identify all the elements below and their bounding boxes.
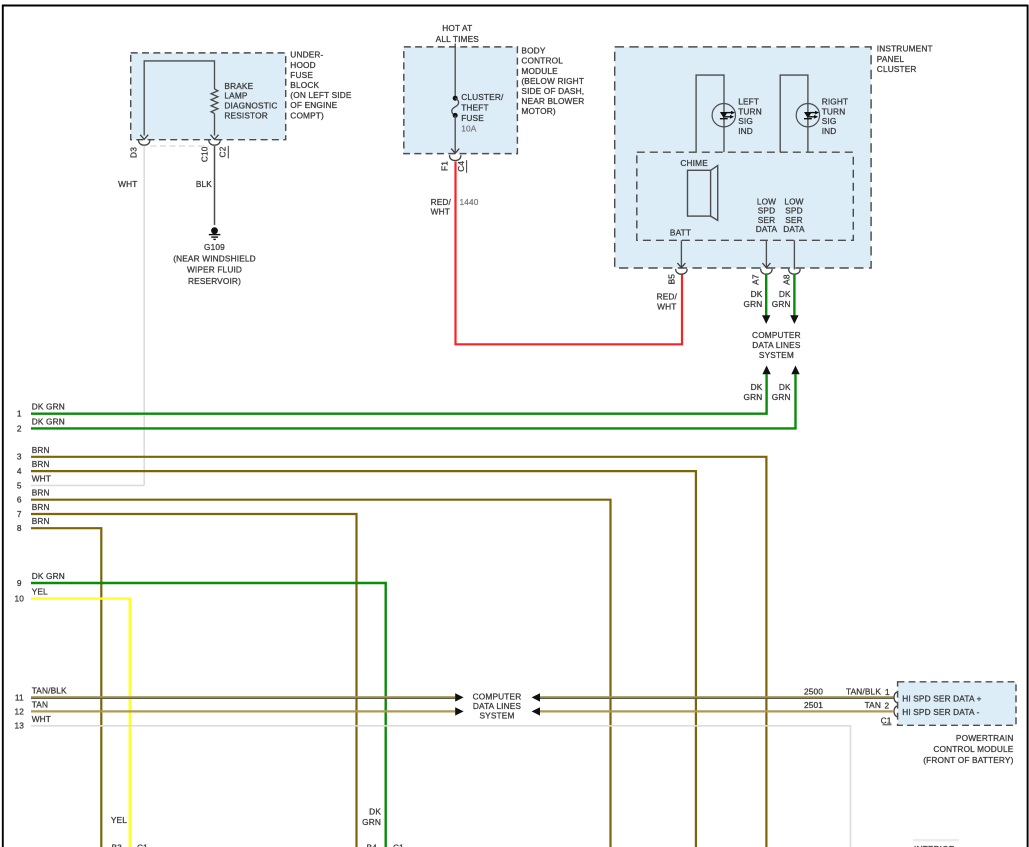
LED lamp right turn sig ind xyxy=(796,104,819,127)
speaker symbol xyxy=(688,166,718,221)
svg-text:GRN: GRN xyxy=(744,392,763,402)
powertrain control module label xyxy=(923,733,1014,765)
wire 13 WHT xyxy=(15,714,851,847)
connector bump D3 xyxy=(138,140,149,145)
connector C2 link line xyxy=(151,145,209,147)
resistor R1 brake lamp diagnostic resistor xyxy=(211,89,218,114)
svg-text:LEFT: LEFT xyxy=(738,96,759,106)
svg-text:CONTROL MODULE: CONTROL MODULE xyxy=(933,744,1013,754)
svg-text:RESISTOR: RESISTOR xyxy=(224,111,267,121)
svg-text:MODULE: MODULE xyxy=(521,66,558,76)
svg-text:B3: B3 xyxy=(112,843,123,847)
svg-text:C1: C1 xyxy=(881,715,892,725)
connector bump F1/C4 xyxy=(449,155,460,160)
svg-text:GRN: GRN xyxy=(362,817,381,827)
svg-text:2501: 2501 xyxy=(804,700,823,710)
svg-text:C1: C1 xyxy=(393,843,404,847)
wire to pin A7 xyxy=(765,240,767,267)
svg-text:WIPER FLUID: WIPER FLUID xyxy=(187,265,242,275)
svg-text:WHT: WHT xyxy=(118,179,137,189)
svg-text:(ON LEFT SIDE: (ON LEFT SIDE xyxy=(290,90,352,100)
label interior (cut off at bottom) xyxy=(913,839,959,847)
svg-text:BRN: BRN xyxy=(32,445,50,455)
wire 12 right segment TAN xyxy=(540,710,893,712)
label right turn sig ind xyxy=(822,96,849,136)
svg-text:10: 10 xyxy=(15,594,25,604)
svg-text:GRN: GRN xyxy=(772,392,791,402)
arrow left into wire 12 right segment xyxy=(532,707,540,715)
wire 5 WHT xyxy=(17,473,144,490)
wire right indicator loop xyxy=(780,75,808,152)
LED lamp left turn sig ind xyxy=(712,104,735,127)
svg-text:GRN: GRN xyxy=(772,299,791,309)
svg-text:2: 2 xyxy=(17,423,22,433)
pin label C2 underlined xyxy=(217,146,228,159)
svg-text:DATA: DATA xyxy=(756,224,778,234)
arrow left into wire 11 right segment xyxy=(532,693,540,701)
svg-text:DK GRN: DK GRN xyxy=(32,402,65,412)
resistor label xyxy=(224,81,277,121)
svg-text:DATA LINES: DATA LINES xyxy=(752,340,801,350)
label RED/WHT at B5 xyxy=(657,292,678,312)
wire DK GRN from A7 down with arrow xyxy=(762,274,770,324)
instrument panel cluster box xyxy=(615,47,871,268)
svg-text:POWERTRAIN: POWERTRAIN xyxy=(956,733,1014,743)
label DK GRN at A7 xyxy=(744,289,763,309)
arrow into pin D3 xyxy=(140,135,148,140)
svg-text:HI SPD SER DATA +: HI SPD SER DATA + xyxy=(902,694,981,704)
wire 9 DK GRN xyxy=(17,571,386,847)
svg-text:TAN/BLK: TAN/BLK xyxy=(32,685,67,695)
svg-text:BRN: BRN xyxy=(32,459,50,469)
wire BLK from C10 to ground xyxy=(214,146,216,225)
svg-text:CLUSTER/: CLUSTER/ xyxy=(461,92,504,102)
pin label C4 underlined xyxy=(456,160,467,173)
svg-text:PANEL: PANEL xyxy=(877,54,905,64)
svg-text:8: 8 xyxy=(17,523,22,533)
wire 7 BRN xyxy=(17,502,357,847)
svg-text:3: 3 xyxy=(17,452,22,462)
connector bump A8 xyxy=(789,269,800,274)
svg-text:BLK: BLK xyxy=(196,179,212,189)
svg-text:4: 4 xyxy=(17,466,22,476)
svg-text:DK GRN: DK GRN xyxy=(32,571,65,581)
svg-text:11: 11 xyxy=(15,692,24,702)
svg-text:SYSTEM: SYSTEM xyxy=(759,350,794,360)
svg-text:WHT: WHT xyxy=(32,473,51,483)
svg-text:BRN: BRN xyxy=(32,516,50,526)
svg-text:TAN/BLK: TAN/BLK xyxy=(846,686,881,696)
svg-text:GRN: GRN xyxy=(744,299,763,309)
svg-text:CONTROL: CONTROL xyxy=(521,56,563,66)
svg-text:A8: A8 xyxy=(782,274,792,285)
svg-text:BRN: BRN xyxy=(32,502,50,512)
svg-text:D3: D3 xyxy=(128,147,138,158)
svg-text:C4: C4 xyxy=(456,161,466,172)
svg-text:MOTOR): MOTOR) xyxy=(521,106,555,116)
svg-text:CLUSTER: CLUSTER xyxy=(877,64,917,74)
svg-text:THEFT: THEFT xyxy=(461,103,488,113)
svg-text:BRN: BRN xyxy=(32,488,50,498)
svg-text:CHIME: CHIME xyxy=(680,158,708,168)
svg-text:TAN: TAN xyxy=(865,700,881,710)
underhood fuse block label xyxy=(290,50,352,121)
svg-text:FUSE: FUSE xyxy=(461,113,484,123)
svg-text:12: 12 xyxy=(15,706,25,716)
svg-text:G109: G109 xyxy=(204,242,225,252)
svg-text:INSTRUMENT: INSTRUMENT xyxy=(877,44,933,54)
pin label C1 underlined xyxy=(881,715,892,725)
label RED/WHT 1440 xyxy=(431,197,479,217)
svg-text:HOT AT: HOT AT xyxy=(442,23,472,33)
svg-text:WHT: WHT xyxy=(32,714,51,724)
svg-text:OF ENGINE: OF ENGINE xyxy=(290,100,337,110)
svg-text:SIG: SIG xyxy=(822,116,837,126)
wire to pin A8 xyxy=(793,240,795,269)
svg-text:RED/: RED/ xyxy=(431,197,452,207)
node computer data lines system (middle) xyxy=(473,692,522,721)
svg-text:F1: F1 xyxy=(440,161,450,171)
connector bump pin 2 PCM xyxy=(894,706,899,717)
svg-text:TAN: TAN xyxy=(32,699,48,709)
label DK GRN wire2 riser xyxy=(772,382,791,402)
arrow up wire 2 xyxy=(791,366,799,375)
svg-text:NEAR BLOWER: NEAR BLOWER xyxy=(521,96,584,106)
svg-text:WHT: WHT xyxy=(431,207,450,217)
svg-text:LAMP: LAMP xyxy=(224,91,248,101)
ground label G109 xyxy=(173,242,256,286)
underhood fuse block U1 box xyxy=(131,53,286,140)
wire 11 right segment TAN/BLK xyxy=(540,697,893,698)
svg-text:C10: C10 xyxy=(199,146,209,162)
svg-text:COMPT): COMPT) xyxy=(290,110,324,120)
svg-text:DK: DK xyxy=(369,807,381,817)
wire DK GRN from A8 down with arrow xyxy=(790,274,798,324)
label 2500 TAN/BLK 1 xyxy=(804,686,890,697)
wire WHT from D3 down to wire 5 xyxy=(143,146,145,485)
svg-text:WHT: WHT xyxy=(657,302,676,312)
label DK GRN wire1 riser xyxy=(744,382,763,402)
ground G109 xyxy=(209,227,221,239)
svg-text:RESERVOIR): RESERVOIR) xyxy=(188,276,241,286)
svg-text:B5: B5 xyxy=(666,274,676,285)
label low spd ser data (left) xyxy=(756,196,778,234)
body control module label xyxy=(521,46,584,117)
fuse label xyxy=(461,92,504,133)
svg-text:TURN: TURN xyxy=(822,106,846,116)
svg-text:HOOD: HOOD xyxy=(290,60,316,70)
svg-text:COMPUTER: COMPUTER xyxy=(752,330,801,340)
svg-text:BATT: BATT xyxy=(670,227,691,237)
svg-text:(FRONT OF BATTERY): (FRONT OF BATTERY) xyxy=(923,755,1013,765)
arrow into pin F1 xyxy=(451,149,459,154)
wire left indicator loop xyxy=(696,75,724,152)
svg-text:10A: 10A xyxy=(461,123,477,133)
svg-text:IND: IND xyxy=(738,126,753,136)
label low spd ser data (right) xyxy=(783,196,805,234)
svg-text:ALL TIMES: ALL TIMES xyxy=(436,34,480,44)
fuse F1 cluster/theft 10A xyxy=(452,96,459,118)
wire BATT to pin B5 xyxy=(680,240,682,267)
svg-text:1: 1 xyxy=(885,687,890,697)
svg-text:9: 9 xyxy=(17,578,22,588)
svg-text:SIDE OF DASH,: SIDE OF DASH, xyxy=(521,86,584,96)
svg-text:DK: DK xyxy=(751,289,763,299)
svg-text:DK: DK xyxy=(779,289,791,299)
wire 6 BRN xyxy=(17,488,611,847)
wire 2 DK GRN xyxy=(17,374,796,433)
svg-text:5: 5 xyxy=(17,480,22,490)
arrow into pin B5 xyxy=(677,263,685,268)
wire 1 DK GRN xyxy=(17,374,767,419)
svg-text:SYSTEM: SYSTEM xyxy=(479,711,514,721)
svg-text:DK: DK xyxy=(779,382,791,392)
label left turn sig ind xyxy=(738,96,762,136)
wire internal fuse block loop xyxy=(144,61,214,136)
label DK GRN at A8 xyxy=(772,289,791,309)
svg-text:B4: B4 xyxy=(367,843,378,847)
svg-text:DIAGNOSTIC: DIAGNOSTIC xyxy=(224,101,277,111)
svg-text:HI SPD SER DATA -: HI SPD SER DATA - xyxy=(902,707,979,717)
svg-text:IND: IND xyxy=(822,126,837,136)
svg-text:YEL: YEL xyxy=(32,587,48,597)
instrument panel cluster label xyxy=(877,44,933,75)
wire feed into fuse xyxy=(454,44,456,99)
wire RED/WHT from F1 to B5 xyxy=(456,162,683,345)
svg-text:2500: 2500 xyxy=(804,686,823,696)
svg-text:C2: C2 xyxy=(217,146,227,157)
svg-text:YEL: YEL xyxy=(111,815,127,825)
body control module box xyxy=(404,47,518,154)
svg-text:TURN: TURN xyxy=(738,106,762,116)
label HOT AT ALL TIMES xyxy=(436,23,480,44)
svg-text:1: 1 xyxy=(17,409,22,419)
svg-text:2: 2 xyxy=(885,700,890,710)
svg-text:BODY: BODY xyxy=(521,46,545,56)
svg-text:6: 6 xyxy=(17,495,22,505)
wire 12 TAN left segment with arrow xyxy=(15,699,464,716)
wire 4 BRN xyxy=(17,459,696,847)
arrow into pin C10 xyxy=(211,135,219,140)
arrow up wire 1 xyxy=(762,366,770,375)
connector bump B5 xyxy=(676,269,687,274)
chime inner box xyxy=(637,152,854,240)
svg-text:BLOCK: BLOCK xyxy=(290,80,319,90)
svg-text:BRAKE: BRAKE xyxy=(224,81,253,91)
wire 8 BRN xyxy=(17,516,101,847)
svg-text:RED/: RED/ xyxy=(657,292,678,302)
wire 10 YEL xyxy=(15,587,130,847)
svg-text:DK: DK xyxy=(751,382,763,392)
arrow into pin A7 xyxy=(762,263,770,268)
svg-text:(BELOW RIGHT: (BELOW RIGHT xyxy=(521,76,584,86)
svg-text:SIG: SIG xyxy=(738,116,753,126)
svg-text:7: 7 xyxy=(17,509,22,519)
svg-text:DATA: DATA xyxy=(783,224,805,234)
node computer data lines system (upper) xyxy=(752,330,801,360)
svg-text:(NEAR WINDSHIELD: (NEAR WINDSHIELD xyxy=(173,253,256,263)
label DK GRN at bottom riser xyxy=(362,807,381,828)
svg-text:DK GRN: DK GRN xyxy=(32,416,65,426)
wire 11 TAN/BLK left segment with arrow xyxy=(15,685,464,702)
wire fuse to pin F1 xyxy=(454,115,456,153)
label 2501 TAN 2 xyxy=(804,700,890,711)
connector bump C10/C2 xyxy=(209,140,220,145)
connector bump A7 xyxy=(761,269,772,274)
svg-text:C1: C1 xyxy=(137,843,148,847)
svg-text:1440: 1440 xyxy=(460,197,479,207)
svg-text:UNDER-: UNDER- xyxy=(290,50,323,60)
svg-text:COMPUTER: COMPUTER xyxy=(473,692,522,702)
connector bump pin 1 PCM xyxy=(894,692,899,703)
svg-text:13: 13 xyxy=(15,721,25,731)
svg-text:FUSE: FUSE xyxy=(290,70,313,80)
svg-text:A7: A7 xyxy=(751,274,761,285)
svg-text:RIGHT: RIGHT xyxy=(822,96,849,106)
powertrain control module box xyxy=(898,682,1016,726)
wire 3 BRN xyxy=(17,445,766,847)
